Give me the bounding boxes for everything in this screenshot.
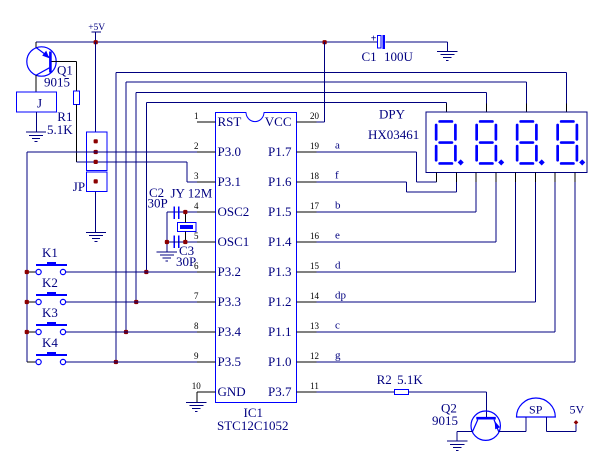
- svg-text:9015: 9015: [44, 75, 70, 90]
- wire digit-select bus digit3 (P3.4): [126, 82, 526, 332]
- 7-segment digit 4: [558, 121, 586, 165]
- svg-text:14: 14: [310, 291, 320, 301]
- wire rail to JP: [95, 42, 97, 132]
- svg-text:HX03461: HX03461: [368, 127, 419, 142]
- node key bus K2: [25, 300, 29, 304]
- node key bus K1: [25, 270, 29, 274]
- svg-text:+5V: +5V: [88, 23, 105, 33]
- svg-text:P1.0: P1.0: [268, 354, 291, 369]
- svg-text:R2: R2: [377, 372, 392, 387]
- svg-text:P1.1: P1.1: [268, 324, 291, 339]
- jumper JP header: [86, 132, 106, 192]
- wire +5V rail: [36, 41, 378, 43]
- pin 16 P1.4 stub: [297, 231, 320, 242]
- svg-text:dp: dp: [335, 290, 347, 302]
- display bottom pin 4 stub: [495, 172, 497, 182]
- svg-text:3: 3: [194, 171, 199, 181]
- svg-text:9: 9: [194, 351, 199, 361]
- wire P3.7 to R2: [317, 391, 395, 393]
- svg-text:P3.1: P3.1: [218, 174, 241, 189]
- svg-text:10: 10: [192, 381, 202, 391]
- pushbutton K3: [27, 322, 197, 335]
- svg-text:7: 7: [194, 291, 199, 301]
- node bus/K3: [124, 330, 128, 334]
- node 5V terminal: [574, 420, 579, 425]
- pin 17 P1.5 stub: [297, 201, 320, 212]
- pin 1 RST stub: [194, 111, 216, 122]
- pin 20 VCC stub: [297, 111, 320, 122]
- svg-text:P1.4: P1.4: [268, 234, 292, 249]
- svg-text:e: e: [335, 230, 340, 242]
- pin 19 P1.7 stub: [297, 141, 320, 152]
- svg-text:5: 5: [194, 231, 199, 241]
- svg-text:+: +: [371, 34, 377, 45]
- wire segment d (row y=272): [317, 182, 516, 272]
- pin 10 GND stub: [192, 381, 216, 392]
- display bottom pin 6 stub: [534, 172, 536, 182]
- wire segment dp (row y=302): [317, 182, 536, 302]
- svg-text:K3: K3: [42, 305, 58, 320]
- transistor Q1 9015 PNP: [27, 47, 56, 76]
- svg-text:16: 16: [310, 231, 320, 241]
- capacitor C3: [174, 236, 178, 249]
- svg-text:SP: SP: [529, 403, 543, 417]
- svg-text:g: g: [335, 350, 341, 362]
- svg-text:5.1K: 5.1K: [397, 372, 423, 387]
- capacitor C2: [174, 207, 178, 220]
- wire segment g (row y=362): [317, 182, 575, 362]
- node junction rail/JP: [94, 40, 98, 44]
- wire C1 to ground: [385, 42, 447, 51]
- wire OSC2 net: [167, 211, 197, 213]
- svg-text:DPY: DPY: [379, 107, 406, 122]
- pin 5 OSC1 stub: [194, 231, 216, 242]
- JP pin 1: [94, 139, 98, 143]
- wire GND pin10 to ground: [196, 392, 198, 402]
- svg-text:P1.6: P1.6: [268, 174, 292, 189]
- display bottom pin 7 stub: [554, 172, 556, 182]
- svg-text:f: f: [335, 170, 339, 182]
- wire segment f (pin18): [317, 182, 457, 192]
- wire R1 to P3.1 net: [77, 104, 197, 182]
- svg-text:8: 8: [194, 321, 199, 331]
- svg-text:OSC1: OSC1: [218, 234, 250, 249]
- wire Q1 collector to J: [35, 75, 37, 92]
- svg-text:STC12C1052: STC12C1052: [217, 418, 289, 433]
- pushbutton K2: [27, 292, 197, 305]
- crystal JY: [177, 223, 195, 232]
- wire segment b (row y=212): [317, 182, 477, 212]
- svg-text:1: 1: [194, 111, 199, 121]
- pin 12 P1.0 stub: [297, 351, 320, 362]
- pin 14 P1.2 stub: [297, 291, 320, 302]
- op-amp IC1 STC12C1052 MCU body: [216, 111, 297, 402]
- pin 15 P1.3 stub: [297, 261, 320, 272]
- node C3 left junction: [165, 240, 169, 244]
- wire Q2 collector to ground: [457, 432, 472, 442]
- node OSC1 junction: [183, 240, 187, 244]
- ground under JP: [86, 233, 106, 242]
- svg-text:K2: K2: [42, 275, 58, 290]
- ground C1: [437, 52, 457, 61]
- wire SP left terminal: [525, 417, 527, 432]
- svg-text:12: 12: [310, 351, 319, 361]
- svg-text:P3.0: P3.0: [218, 144, 241, 159]
- pin 2 P3.0 stub: [194, 141, 216, 152]
- svg-text:9015: 9015: [432, 413, 458, 428]
- svg-text:15: 15: [310, 261, 320, 271]
- svg-text:P3.3: P3.3: [218, 294, 241, 309]
- pin 11 P3.7 stub: [297, 381, 319, 392]
- svg-text:GND: GND: [218, 384, 246, 399]
- svg-text:5V: 5V: [570, 403, 585, 417]
- power +5V symbol: [88, 23, 105, 42]
- svg-text:JP: JP: [73, 179, 85, 194]
- wire SP right terminal to 5V: [546, 417, 576, 432]
- svg-text:K1: K1: [42, 245, 58, 260]
- pin 7 P3.3 stub: [194, 291, 216, 302]
- svg-text:17: 17: [310, 201, 320, 211]
- wire Q2 emitter to SP: [499, 431, 527, 433]
- svg-text:K4: K4: [42, 335, 58, 350]
- wire VCC to rail: [317, 42, 325, 122]
- 7-segment digit 1: [436, 121, 464, 165]
- svg-text:5.1K: 5.1K: [47, 122, 73, 137]
- 7-segment digit 2: [477, 121, 505, 165]
- 7-segment digit 3: [517, 121, 545, 165]
- wire JP to ground: [95, 192, 97, 233]
- JP pin 3: [94, 160, 98, 164]
- wire segment a (pin19): [317, 152, 437, 182]
- pin 3 P3.1 stub: [194, 171, 216, 182]
- svg-text:20: 20: [310, 111, 320, 121]
- svg-text:P1.3: P1.3: [268, 264, 291, 279]
- svg-text:P3.5: P3.5: [218, 354, 241, 369]
- display bottom pin 3 stub: [475, 172, 477, 182]
- connector J: [17, 92, 57, 112]
- JP pin 2: [94, 150, 98, 154]
- svg-text:30P: 30P: [176, 254, 196, 269]
- speaker SP: [517, 398, 556, 417]
- JP pin 4: [94, 179, 98, 183]
- svg-text:RST: RST: [218, 114, 242, 129]
- pin 9 P3.5 stub: [194, 351, 216, 362]
- svg-text:P3.7: P3.7: [268, 384, 292, 399]
- display bottom pin 8 stub: [574, 172, 576, 182]
- pin 13 P1.1 stub: [297, 321, 320, 332]
- wire crystal left leg: [166, 212, 168, 252]
- wire P3.0 net: [27, 151, 197, 153]
- wire segment e (row y=242): [317, 182, 496, 242]
- svg-text:a: a: [335, 140, 340, 152]
- wire segment c (row y=332): [317, 182, 556, 332]
- node bus/K2: [134, 300, 138, 304]
- svg-text:b: b: [335, 200, 341, 212]
- svg-text:P3.2: P3.2: [218, 264, 241, 279]
- wire crystal bottom: [184, 232, 186, 243]
- wire crystal top: [184, 212, 186, 223]
- pin 4 OSC2 stub: [194, 201, 216, 212]
- svg-text:JY 12M: JY 12M: [171, 186, 213, 201]
- svg-text:100U: 100U: [384, 49, 414, 64]
- svg-text:OSC2: OSC2: [218, 204, 250, 219]
- svg-text:c: c: [335, 320, 340, 332]
- wire digit-select bus digit1 (P3.2): [146, 102, 446, 272]
- wire key common bus: [26, 152, 28, 362]
- pushbutton K4: [27, 352, 197, 365]
- transistor Q2 9015 PNP: [471, 411, 500, 440]
- resistor R2: [394, 389, 408, 394]
- svg-text:11: 11: [310, 381, 319, 391]
- svg-text:J: J: [37, 96, 42, 111]
- wire digit-select bus digit4 (P3.5): [116, 72, 567, 362]
- display DPY HX03461 body: [426, 112, 587, 172]
- ground crystal: [157, 252, 177, 261]
- svg-text:13: 13: [310, 321, 320, 331]
- svg-text:P3.4: P3.4: [218, 324, 242, 339]
- svg-text:VCC: VCC: [265, 114, 292, 129]
- pin 8 P3.4 stub: [194, 321, 216, 332]
- svg-text:d: d: [335, 260, 341, 272]
- node bus/K4: [114, 360, 118, 364]
- wire J to ground: [36, 112, 38, 132]
- svg-text:30P: 30P: [148, 196, 168, 211]
- pin 18 P1.6 stub: [297, 171, 320, 182]
- svg-text:P1.5: P1.5: [268, 204, 291, 219]
- display bottom pin 2 stub: [455, 172, 457, 182]
- svg-text:P1.2: P1.2: [268, 294, 291, 309]
- svg-text:C1: C1: [362, 49, 377, 64]
- pushbutton K1: [27, 262, 197, 275]
- ground under J: [26, 132, 46, 141]
- display bottom pin 1 stub: [436, 172, 438, 182]
- node junction rail/VCC: [323, 40, 327, 44]
- wire R2 to Q2 base: [409, 392, 487, 417]
- capacitor C1 electrolytic: [371, 34, 384, 50]
- svg-text:4: 4: [194, 201, 199, 211]
- node OSC2 junction: [183, 210, 187, 214]
- wire digit-select bus digit2 (P3.3): [136, 92, 486, 302]
- wire Q1 base to R1: [52, 62, 77, 91]
- pin 6 P3.2 stub: [194, 261, 216, 272]
- svg-text:19: 19: [310, 141, 320, 151]
- svg-text:2: 2: [194, 141, 199, 151]
- svg-text:P1.7: P1.7: [268, 144, 292, 159]
- display bottom pin 5 stub: [515, 172, 517, 182]
- node key bus K3: [25, 330, 29, 334]
- node bus/K1: [144, 270, 148, 274]
- resistor R1: [74, 91, 80, 104]
- wire Q1 emitter to rail: [35, 42, 37, 47]
- ground pin10: [186, 402, 206, 411]
- svg-text:18: 18: [310, 171, 320, 181]
- ground Q2: [447, 441, 467, 450]
- wire OSC1 net: [167, 241, 197, 243]
